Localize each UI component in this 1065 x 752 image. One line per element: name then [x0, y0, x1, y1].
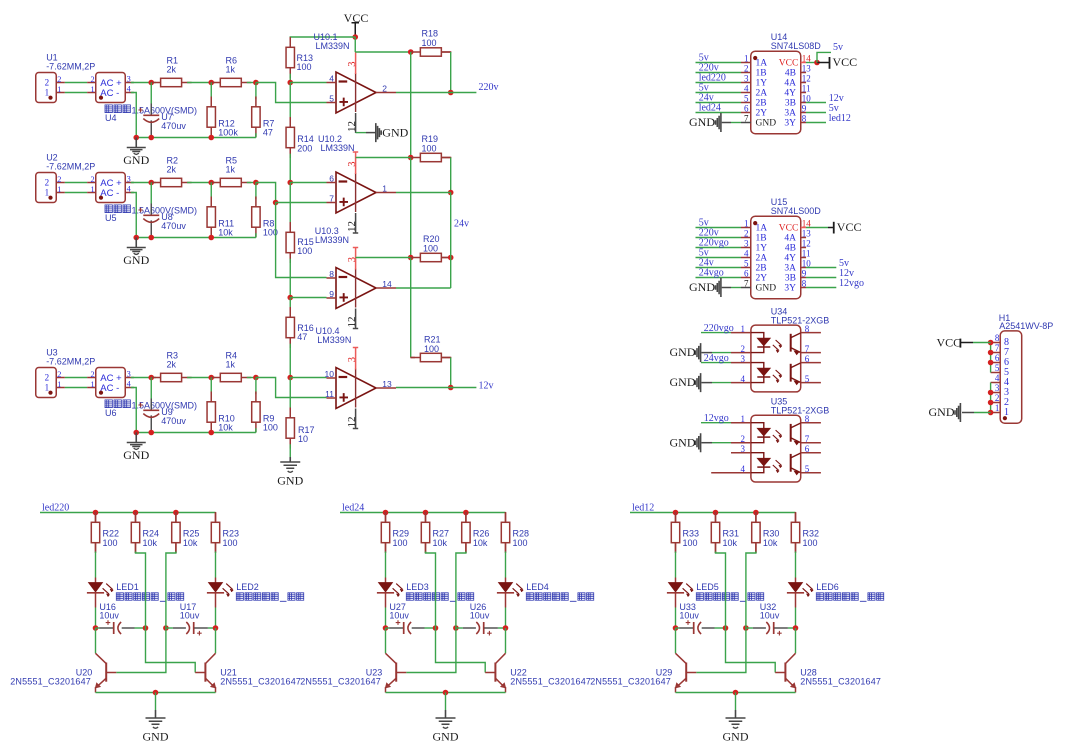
resistor R19 [410, 153, 451, 161]
resistor R11 [207, 197, 215, 238]
svg-text:GND: GND [277, 474, 303, 488]
svg-text:LED3: LED3 [406, 582, 429, 592]
svg-text:3: 3 [347, 357, 358, 362]
svg-text:6: 6 [995, 353, 1000, 363]
resistor R15 [286, 222, 294, 263]
H1 pin 5 [991, 372, 1001, 374]
svg-text:R21: R21 [424, 335, 441, 345]
VCC power symbol top [344, 11, 369, 37]
wire to divider node [247, 82, 256, 84]
ground symbol U35 pin2 [695, 433, 700, 452]
svg-text:2: 2 [45, 77, 50, 87]
U35 pin4 stub wire [711, 472, 731, 474]
U35 internal LED channel [751, 423, 764, 443]
svg-text:LED2: LED2 [236, 582, 259, 592]
svg-text:12: 12 [346, 317, 358, 328]
H1 pin 8 [991, 342, 1001, 344]
resistor R18 [410, 48, 451, 56]
LED LED5 [675, 578, 677, 583]
svg-text:1: 1 [744, 54, 749, 64]
svg-text:3Y: 3Y [784, 119, 796, 129]
wire op1 output 220v [396, 92, 476, 94]
svg-text:3B: 3B [785, 99, 796, 109]
svg-text:13: 13 [382, 379, 392, 389]
svg-text:GND: GND [929, 405, 955, 419]
junction bus gnd [133, 430, 139, 436]
net label 24vgo to U15 pin 6 [696, 277, 742, 279]
net label 220v to U14 pin 2 [696, 72, 742, 74]
svg-text:1Y: 1Y [756, 79, 768, 89]
svg-text:6: 6 [744, 269, 749, 279]
svg-text:R32: R32 [803, 529, 820, 539]
svg-text:R19: R19 [422, 134, 439, 144]
svg-text:1: 1 [45, 87, 50, 97]
resistor R23 100 [211, 512, 219, 553]
svg-text:GND: GND [723, 730, 749, 744]
junction R20 vcc [408, 255, 414, 261]
wire R26 to cap2 node and U23 base [465, 543, 467, 553]
svg-text:100: 100 [297, 62, 312, 72]
wire to LED1 [95, 552, 97, 578]
svg-text:4A: 4A [784, 79, 796, 89]
junction bus gnd [133, 135, 139, 141]
wire down to bus [255, 233, 257, 237]
net label 24v to U14 pin 5 [696, 102, 742, 104]
junction bus cap [148, 135, 154, 141]
svg-text:1: 1 [57, 380, 61, 389]
wire rail [289, 154, 291, 183]
U15 pin 9 [801, 277, 806, 279]
U35 pin 8 [801, 422, 821, 424]
svg-text:10k: 10k [433, 538, 448, 548]
net label 220v to U15 pin 2 [696, 237, 742, 239]
svg-text:2B: 2B [756, 99, 767, 109]
wire LED cathode down [385, 608, 387, 629]
U35 internal phototransistor [790, 424, 792, 442]
net label 5v from U15 pin 10 [806, 267, 836, 269]
stub R31 [715, 513, 717, 523]
wire 24v sense to op3 pin8 [276, 203, 327, 278]
capacitor U8 [138, 183, 159, 238]
svg-text:4: 4 [741, 374, 746, 384]
wire pin4 down to gnd bus [131, 93, 137, 138]
svg-text:R29: R29 [393, 529, 410, 539]
svg-text:1A: 1A [756, 59, 768, 69]
junction cap left [673, 625, 679, 631]
stub R33 [675, 513, 677, 523]
svg-text:4A: 4A [784, 234, 796, 244]
resistor R30 10k [752, 512, 760, 553]
junction rail node op3 [287, 295, 293, 301]
resistor R20 [410, 253, 451, 261]
svg-text:470uv: 470uv [161, 121, 186, 131]
net label 5v to U15 pin 4 [696, 257, 742, 259]
svg-text:8: 8 [329, 269, 334, 279]
net label led24 to U14 pin 6 [696, 112, 742, 114]
U14 pin14 VCC wire [806, 62, 817, 64]
svg-text:-7.62MM,2P: -7.62MM,2P [46, 162, 95, 172]
U14 pin 12 [801, 82, 806, 84]
junction mid [208, 80, 214, 86]
svg-text:LED4: LED4 [526, 582, 549, 592]
wire R21 right [441, 357, 450, 359]
svg-text:GND: GND [123, 153, 149, 167]
bridge rectifier U5 [87, 173, 134, 203]
svg-text:12: 12 [802, 74, 811, 84]
junction bus rmid [208, 235, 214, 241]
svg-text:10k: 10k [218, 227, 233, 237]
ground divider rail [280, 462, 300, 468]
net label led12 from U14 pin 8 [806, 122, 826, 124]
svg-text:24v: 24v [454, 219, 469, 230]
svg-text:4B: 4B [785, 69, 796, 79]
wire to op3 pin9 [290, 297, 326, 299]
svg-text:8: 8 [995, 333, 1000, 343]
svg-text:R26: R26 [473, 529, 490, 539]
U34 pin 6 [801, 362, 821, 364]
junction mid [208, 375, 214, 381]
net label 12vgo to U35 pin1 [701, 422, 731, 424]
svg-text:100: 100 [803, 538, 818, 548]
wire gnd stem [735, 693, 737, 711]
LED LED2 [215, 578, 217, 583]
svg-text:11: 11 [802, 84, 811, 94]
wire to collector [385, 628, 387, 653]
svg-text:VCC: VCC [779, 59, 799, 69]
wire U1 pin1 to U4 [65, 92, 87, 94]
ground led12 block [726, 718, 746, 724]
ground led220 block [146, 718, 166, 724]
svg-text:1: 1 [90, 185, 94, 194]
svg-text:10: 10 [298, 434, 308, 444]
svg-text:led12: led12 [829, 113, 851, 124]
wire to R8 [255, 183, 257, 200]
wire vcc rail [410, 258, 412, 358]
junction H1 pin7 [988, 350, 994, 356]
svg-text:2: 2 [90, 370, 94, 379]
U14 pin 7 [741, 122, 751, 124]
ground symbol U34 pin2 [695, 343, 700, 362]
svg-text:10k: 10k [183, 538, 198, 548]
wire gnd stem [155, 693, 157, 711]
svg-text:GND: GND [123, 448, 149, 462]
U14 pin 6 [741, 112, 751, 114]
svg-text:3: 3 [995, 383, 1000, 393]
wire to divider node [247, 377, 256, 379]
svg-text:1: 1 [382, 183, 387, 193]
H1 pin 2 [991, 402, 1001, 404]
wire rail [289, 344, 291, 378]
wire R30 to cap2 node and U29 base [755, 543, 757, 553]
U14 pin 9 [801, 112, 806, 114]
connector H1 A2541WV-8P [1000, 331, 1022, 423]
svg-text:U5: U5 [105, 213, 117, 223]
wire to R11 [210, 183, 212, 200]
svg-text:R18: R18 [422, 29, 439, 39]
svg-text:1A: 1A [756, 224, 768, 234]
svg-text:LM339N: LM339N [317, 335, 351, 345]
junction rail node 220v ref [287, 80, 293, 86]
U34 internal phototransistor [790, 334, 792, 352]
svg-text:2B: 2B [756, 264, 767, 274]
net label 12vgo from U15 pin 8 [806, 287, 836, 289]
svg-text:U4: U4 [105, 113, 117, 123]
label U5 value [105, 205, 130, 213]
wire LED cathode down [795, 608, 797, 629]
svg-text:100: 100 [393, 538, 408, 548]
svg-text:AC -: AC - [100, 88, 119, 99]
wire 24v wired-or link [450, 193, 452, 258]
svg-text:SN74LS00D: SN74LS00D [771, 206, 822, 216]
U14 pin 11 [801, 92, 806, 94]
stub R29 [385, 513, 387, 523]
svg-text:3A: 3A [784, 109, 796, 119]
LED LED4 [505, 578, 507, 583]
svg-text:2N5551_C3201647: 2N5551_C3201647 [800, 677, 881, 687]
junction bus rmid [208, 430, 214, 436]
U35 pin 5 [801, 472, 821, 474]
svg-text:1k: 1k [226, 64, 236, 74]
op-amp U10.3 pin 12 GND [353, 309, 358, 329]
junction 24v sense [273, 200, 279, 206]
junction bus gnd [133, 235, 139, 241]
junction led24 rail [423, 510, 429, 516]
U14 pin 10 [801, 102, 806, 104]
resistor R33 100 [671, 512, 679, 553]
op-amp U10.2 LM339N [327, 172, 397, 213]
U34 pin 3 [731, 362, 751, 364]
junction cap2 right [503, 625, 509, 631]
gnd stem [135, 138, 137, 148]
svg-text:2: 2 [57, 75, 61, 84]
wire 12v sense to op4 pin11 [256, 378, 327, 398]
junction H1 pin8 [988, 340, 994, 346]
svg-text:2k: 2k [167, 64, 177, 74]
connector U2 [36, 173, 65, 203]
junction VCC node [352, 34, 358, 40]
wire VCC to R13 [290, 37, 355, 42]
svg-text:3: 3 [127, 369, 131, 378]
svg-text:1B: 1B [756, 234, 767, 244]
svg-text:10uv: 10uv [99, 611, 119, 621]
resistor R21 [410, 353, 451, 361]
svg-text:100: 100 [423, 243, 438, 253]
net label 5v to U15 pin 1 [696, 227, 742, 229]
svg-text:GND: GND [756, 119, 777, 129]
svg-text:10uv: 10uv [180, 611, 200, 621]
svg-text:2: 2 [744, 229, 749, 239]
junction led12 rail [753, 510, 759, 516]
U14 pin 4 [741, 92, 751, 94]
H1 pin 7 [991, 352, 1001, 354]
svg-text:100: 100 [263, 422, 278, 432]
svg-text:12: 12 [346, 417, 358, 428]
svg-text:-7.62MM,2P: -7.62MM,2P [46, 62, 95, 72]
svg-text:4: 4 [741, 464, 746, 474]
svg-text:5: 5 [744, 94, 749, 104]
capacitor U9 [138, 378, 159, 433]
resistor R12 [207, 97, 215, 138]
wire pin3 to R1 [131, 82, 156, 84]
capacitor U7 [138, 83, 159, 138]
stub R27 [425, 513, 427, 523]
junction H1 pin3 [988, 390, 994, 396]
optocoupler U35 TLP521-2XGB [751, 415, 801, 482]
net label 5v from U14 pin 9 [806, 112, 826, 114]
stub [210, 133, 212, 137]
svg-text:GND: GND [382, 125, 408, 139]
optocoupler U34 TLP521-2XGB [751, 325, 801, 392]
svg-text:VCC: VCC [779, 224, 799, 234]
svg-text:3: 3 [127, 174, 131, 183]
svg-text:47: 47 [297, 332, 307, 342]
svg-text:-7.62MM,2P: -7.62MM,2P [46, 357, 95, 367]
resistor R24 10k [131, 512, 139, 553]
resistor R9 [252, 392, 260, 433]
U14 pin 1 [741, 62, 751, 64]
svg-text:10: 10 [325, 369, 335, 379]
svg-text:1k: 1k [226, 164, 236, 174]
svg-text:3B: 3B [785, 274, 796, 284]
svg-text:8: 8 [805, 414, 810, 424]
svg-text:1: 1 [744, 219, 749, 229]
svg-text:R30: R30 [763, 529, 780, 539]
wire 24v sense jog [256, 183, 276, 203]
svg-text:1: 1 [1004, 407, 1009, 418]
svg-text:11: 11 [802, 249, 811, 259]
wire to op2 pin7 [276, 202, 327, 204]
wire to collector [795, 628, 797, 653]
wire emitter bus [96, 692, 216, 694]
resistor R16 [286, 307, 294, 348]
stub R22 [95, 513, 97, 523]
svg-text:VCC: VCC [837, 220, 862, 234]
ground op1 pin12 [356, 132, 366, 134]
svg-text:100: 100 [683, 538, 698, 548]
wire R19 right [441, 157, 450, 159]
junction out 24v [448, 190, 454, 196]
resistor R13 [286, 37, 294, 78]
resistor R2 [151, 178, 192, 186]
svg-text:7: 7 [995, 343, 1000, 353]
resistor R7 [252, 97, 260, 138]
resistor R31 10k [711, 512, 719, 553]
svg-text:10uv: 10uv [760, 611, 780, 621]
ground U6 block [127, 443, 146, 447]
wire R19 to out2 [450, 158, 452, 193]
svg-text:14: 14 [382, 279, 392, 289]
svg-text:3: 3 [347, 62, 358, 67]
junction divider out [253, 375, 259, 381]
net label led220 to U14 pin 3 [696, 82, 742, 84]
wire led24 rail [340, 512, 506, 514]
resistor R22 100 [91, 512, 99, 553]
ground U15 pin7 [722, 287, 731, 289]
U14 pin 13 [801, 72, 806, 74]
svg-text:GND: GND [123, 253, 149, 267]
junction R20 out [448, 255, 454, 261]
U34 pin 5 [801, 382, 821, 384]
junction node in [148, 180, 154, 186]
IC U15 SN74LS00D [751, 216, 801, 299]
svg-text:7: 7 [805, 434, 810, 444]
ground U5 block [127, 248, 146, 252]
wire R25 to cap2 node and U20 base [175, 543, 177, 553]
wire LED cathode down [675, 608, 677, 629]
svg-text:10k: 10k [473, 538, 488, 548]
wire R27 to cap node and U22 base [425, 543, 427, 553]
wire to collector [215, 628, 217, 653]
U35 internal phototransistor [790, 454, 792, 472]
svg-text:2N5551_C3201647: 2N5551_C3201647 [220, 677, 301, 687]
svg-text:47: 47 [263, 127, 273, 137]
junction led12 rail [713, 510, 719, 516]
svg-text:100: 100 [422, 38, 437, 48]
ground symbol U34 pin4 [695, 373, 700, 392]
svg-text:1: 1 [90, 85, 94, 94]
U15 pin 2 [741, 237, 751, 239]
svg-text:3: 3 [741, 354, 746, 364]
svg-text:7: 7 [329, 194, 334, 204]
svg-text:24vgo: 24vgo [699, 267, 724, 278]
svg-text:100: 100 [513, 538, 528, 548]
wire to divider node [247, 182, 256, 184]
svg-text:GND: GND [670, 345, 696, 359]
op-amp U10.1 LM339N [327, 72, 397, 113]
resistor R26 10k [462, 512, 470, 553]
VCC power symbol U14 [829, 57, 831, 69]
svg-text:5: 5 [805, 464, 810, 474]
wire U2 pin2 to U5 [65, 182, 87, 184]
net label 5v to U14 pin 1 [696, 62, 742, 64]
junction U14 vcc 5v [814, 60, 820, 66]
svg-text:GND: GND [670, 435, 696, 449]
svg-text:AC -: AC - [100, 383, 119, 394]
junction mid [208, 180, 214, 186]
junction cap left [383, 625, 389, 631]
svg-text:GND: GND [689, 115, 715, 129]
svg-text:LM339N: LM339N [321, 143, 355, 153]
IC U14 SN74LS08D [751, 51, 801, 134]
svg-text:5: 5 [329, 94, 334, 104]
wire R21 to out4 [450, 358, 452, 388]
svg-text:100: 100 [422, 144, 437, 154]
LED LED6 [795, 578, 797, 583]
svg-text:100: 100 [424, 344, 439, 354]
resistor R29 100 [381, 512, 389, 553]
wire to LED2 [215, 552, 217, 578]
wire vcc rail [410, 52, 412, 158]
stub R28 [505, 513, 507, 523]
gnd bus wire [136, 237, 256, 239]
wire to R10 [210, 378, 212, 395]
U14 pin 14 [801, 62, 806, 64]
junction rail node 24v ref [287, 180, 293, 186]
connector U3 [36, 368, 65, 398]
svg-text:2: 2 [57, 175, 61, 184]
svg-text:1: 1 [741, 414, 746, 424]
svg-text:2: 2 [741, 434, 746, 444]
junction led12 rail [673, 510, 679, 516]
bridge rectifier U6 [87, 368, 134, 398]
svg-text:470uv: 470uv [161, 221, 186, 231]
svg-text:1B: 1B [756, 69, 767, 79]
svg-text:2: 2 [741, 344, 746, 354]
svg-text:1: 1 [57, 85, 61, 94]
svg-text:6: 6 [805, 444, 810, 454]
svg-text:220v: 220v [479, 82, 499, 93]
bridge rectifier U4 [87, 73, 134, 103]
